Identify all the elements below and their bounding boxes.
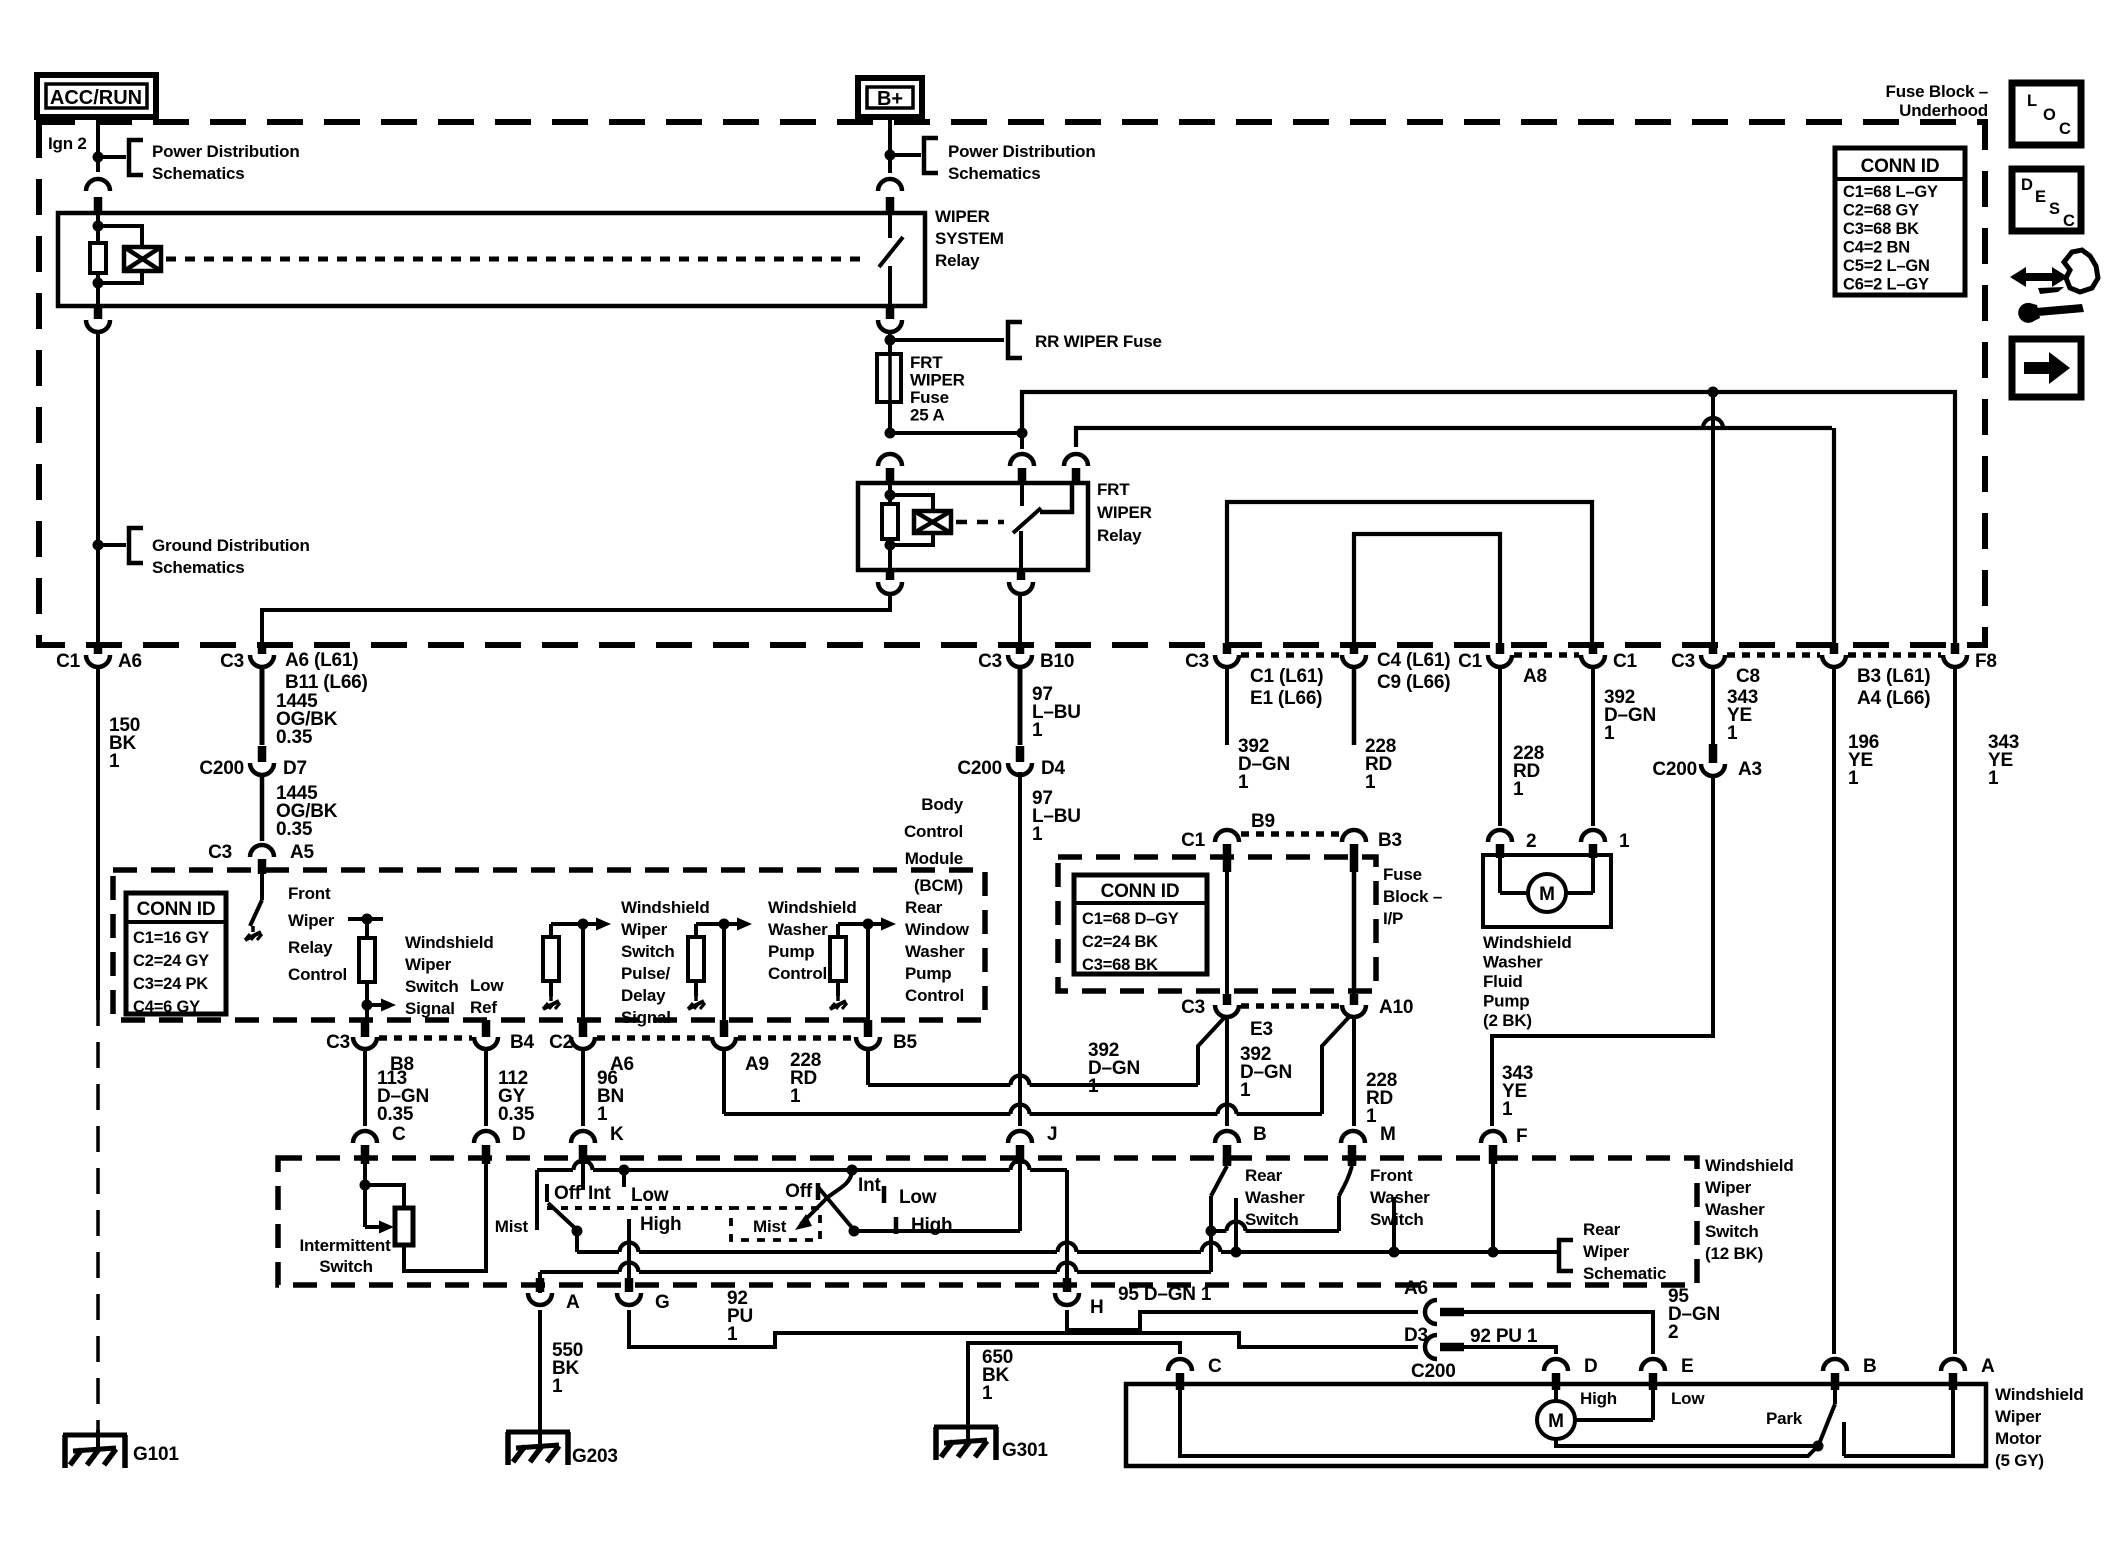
motor pin E connector [1641, 1359, 1665, 1371]
svg-text:High: High [1580, 1389, 1617, 1408]
svg-text:C200: C200 [1652, 759, 1697, 780]
wire fuse node to FRT wiper relay node [890, 431, 1022, 435]
intermittent switch potentiometer [363, 1162, 367, 1227]
svg-text:A: A [1981, 1356, 1995, 1377]
svg-text:Schematics: Schematics [152, 164, 245, 183]
svg-text:Washer: Washer [1245, 1188, 1305, 1207]
svg-text:FRT: FRT [910, 353, 943, 372]
wire pin H down from feed line [1065, 1170, 1069, 1292]
svg-text:B9: B9 [1251, 811, 1275, 832]
coil element (x-box) of FRT wiper relay [914, 511, 951, 533]
svg-text:L: L [2027, 92, 2037, 110]
svg-text:M: M [1539, 884, 1555, 905]
svg-text:1: 1 [1088, 1076, 1099, 1097]
wire from A9 to fuse block I/P A10 (228 RD 1) [722, 1049, 726, 1114]
svg-text:Relay: Relay [288, 938, 333, 957]
icon DESC box [2012, 169, 2081, 231]
svg-text:Pump: Pump [1483, 992, 1529, 1011]
svg-text:C4=6 GY: C4=6 GY [133, 998, 200, 1016]
svg-text:Wiper: Wiper [405, 955, 452, 974]
svg-text:Wiper: Wiper [1705, 1178, 1752, 1197]
svg-text:Washer: Washer [1705, 1200, 1765, 1219]
svg-text:Off: Off [554, 1183, 582, 1204]
svg-text:Control: Control [768, 964, 827, 983]
svg-text:Rear: Rear [905, 898, 943, 917]
CONN ID table for Fuse Block I/P [1074, 875, 1207, 974]
svg-text:0.35: 0.35 [276, 819, 313, 840]
svg-text:Motor: Motor [1995, 1429, 2042, 1448]
svg-text:Rear: Rear [1583, 1220, 1621, 1239]
wire 96 BN 1 from A6 to switch pin K [581, 1049, 585, 1126]
svg-text:1: 1 [1238, 772, 1249, 793]
svg-text:C3: C3 [220, 651, 244, 672]
svg-text:C3=68 BK: C3=68 BK [1843, 220, 1919, 238]
power source ACC/RUN [37, 75, 156, 117]
wire 550 BK 1 from A to G203 [538, 1310, 542, 1447]
connector C3 pin A6(L61)/B11(L66) [258, 643, 267, 654]
svg-text:1: 1 [1365, 772, 1376, 793]
wire relay output right (B+) down to fuse [886, 306, 895, 319]
relay actuation dotted line [166, 257, 866, 262]
svg-text:Low: Low [470, 976, 504, 995]
svg-text:Wiper: Wiper [1583, 1242, 1630, 1261]
reference bracket Rear Wiper Schematic [1554, 1250, 1558, 1254]
connector pin B3 into fuse block I/P [1352, 669, 1357, 745]
wire 95 D-GN 2 to motor pin E [1462, 1312, 1653, 1354]
svg-text:Intermittent: Intermittent [299, 1236, 391, 1255]
svg-text:1: 1 [790, 1086, 801, 1107]
svg-text:B3 (L61): B3 (L61) [1857, 666, 1930, 687]
module U - Body Control Module dashed box [113, 870, 985, 1020]
svg-text:G: G [655, 1292, 670, 1313]
svg-text:Front: Front [288, 884, 331, 903]
svg-text:Power Distribution: Power Distribution [948, 142, 1096, 161]
resistor in FRT wiper relay [882, 504, 898, 539]
svg-text:K: K [610, 1124, 624, 1145]
ground G203 [506, 1430, 570, 1435]
svg-text:Park: Park [1766, 1409, 1803, 1428]
svg-text:Signal: Signal [621, 1008, 671, 1027]
svg-text:1: 1 [982, 1383, 993, 1404]
BCM input Windshield Wiper Switch Signal with resistor [348, 917, 383, 921]
BCM output Rear Window Washer Pump Control with resistor and ground [838, 922, 882, 926]
svg-text:E: E [2035, 188, 2046, 206]
BCM output Windshield Washer Pump Control with resistor and ground [696, 922, 738, 926]
switch pin G connector [625, 1278, 634, 1292]
svg-text:O: O [2043, 106, 2056, 124]
svg-text:Washer: Washer [905, 942, 965, 961]
svg-text:Low: Low [631, 1185, 669, 1206]
svg-text:1: 1 [1619, 831, 1630, 852]
wire branch down to C3/C8 connector [1711, 392, 1715, 645]
svg-text:A8: A8 [1523, 666, 1547, 687]
mechanical link dotted line [547, 1206, 731, 1210]
svg-text:CONN ID: CONN ID [1101, 881, 1180, 902]
connector C3 pin C1(L61)/E1(L66) [1223, 643, 1232, 654]
svg-text:Block –: Block – [1383, 887, 1442, 906]
wire 392 D-GN 1 from C1 to pump pin 1 [1591, 669, 1595, 826]
connector C1 (washer pump low side) [1589, 643, 1598, 654]
connector pin F8 [1951, 643, 1960, 654]
svg-text:Ground Distribution: Ground Distribution [152, 536, 310, 555]
svg-text:Control: Control [288, 965, 347, 984]
svg-text:0.35: 0.35 [276, 727, 313, 748]
svg-text:1: 1 [1240, 1080, 1251, 1101]
wire from B5 to fuse block I/P E3 (392 D-GN 1) [866, 1049, 870, 1085]
svg-text:Switch: Switch [1245, 1210, 1299, 1229]
svg-text:C8: C8 [1736, 666, 1760, 687]
svg-text:0.35: 0.35 [498, 1104, 535, 1125]
wiper motor armature and speed inputs [1554, 1390, 1558, 1401]
svg-text:C3: C3 [208, 842, 232, 863]
svg-text:Fluid: Fluid [1483, 972, 1523, 991]
mist contact (left) [535, 1170, 539, 1230]
svg-text:A6: A6 [118, 651, 142, 672]
wire 1445 OG/BK 0.35 lower segment [260, 775, 265, 841]
svg-text:A9: A9 [745, 1054, 769, 1075]
svg-text:1: 1 [1502, 1099, 1513, 1120]
coil element (x-box) of wiper system relay [124, 247, 161, 271]
svg-text:A10: A10 [1379, 997, 1413, 1018]
svg-text:Mist: Mist [753, 1217, 787, 1236]
svg-text:1: 1 [1988, 768, 1999, 789]
svg-text:(5 GY): (5 GY) [1995, 1451, 2044, 1470]
svg-text:M: M [1548, 1411, 1564, 1432]
svg-text:Underhood: Underhood [1899, 101, 1988, 120]
switch pin D connector [474, 1131, 498, 1143]
reference bracket Power Distribution Schematics (left) [98, 155, 126, 159]
power source B+ [858, 78, 922, 117]
svg-text:Washer: Washer [1370, 1188, 1430, 1207]
fuse block internal jumper C3 to C1 [1227, 502, 1592, 645]
svg-text:E3: E3 [1250, 1019, 1273, 1040]
ground G101 [96, 1430, 100, 1452]
svg-text:1: 1 [1848, 768, 1859, 789]
connector symbol on B+ wire [878, 179, 902, 191]
reference bracket RR WIPER Fuse [890, 338, 1004, 342]
reference bracket Power Distribution Schematics (right) [890, 153, 921, 157]
switch pin K connector [571, 1131, 595, 1143]
svg-text:Windshield: Windshield [768, 898, 857, 917]
wiper switch blade (left) [548, 1203, 577, 1230]
svg-text:C3: C3 [1671, 651, 1695, 672]
mist detent dashed box [731, 1208, 820, 1240]
svg-text:C3: C3 [326, 1032, 350, 1053]
wire motor pin C internal rail [1180, 1390, 1816, 1456]
wire 228 RD 1 from C1 A8 to pump pin 2 [1498, 669, 1502, 826]
svg-text:Windshield: Windshield [405, 933, 494, 952]
svg-text:E: E [1681, 1356, 1693, 1377]
wire relay output left (Ign2 side) down [94, 306, 103, 319]
svg-text:Switch: Switch [319, 1257, 373, 1276]
wire FRT relay switched out to C3 B10 [1017, 570, 1026, 580]
svg-text:92 PU 1: 92 PU 1 [1470, 1326, 1538, 1347]
svg-text:D: D [512, 1124, 526, 1145]
connector pin A10 [1350, 994, 1359, 1005]
svg-text:C2: C2 [549, 1032, 573, 1053]
CONN ID table for BCM [126, 893, 226, 1014]
svg-text:RR WIPER Fuse: RR WIPER Fuse [1035, 332, 1162, 351]
wire B+ to wiper system relay [888, 117, 892, 173]
motor M - Windshield Washer Fluid Pump [1483, 855, 1611, 927]
svg-text:WIPER: WIPER [1097, 503, 1152, 522]
connector arcs into FRT WIPER relay [1020, 433, 1024, 449]
reference bracket Ground Distribution Schematics [98, 543, 126, 547]
high contact (left) to pin G [627, 1219, 631, 1292]
motor pin A connector [1941, 1359, 1965, 1371]
switch pin H connector [1063, 1278, 1072, 1292]
svg-text:25 A: 25 A [910, 406, 944, 425]
connector C3 pin E3 [1223, 994, 1232, 1005]
svg-text:C4 (L61): C4 (L61) [1377, 650, 1450, 671]
motor pin D connector [1544, 1359, 1568, 1371]
svg-text:Wiper: Wiper [288, 911, 335, 930]
wire 1445 OG/BK 0.35 upper segment [260, 669, 265, 745]
svg-text:95 D–GN 1: 95 D–GN 1 [1118, 1284, 1212, 1305]
BCM driver Front Wiper Relay Control with ground [260, 872, 264, 900]
wire dashed continuation to G101 [96, 1000, 100, 1433]
connector C3 pin B10 [1016, 643, 1025, 654]
svg-text:Relay: Relay [1097, 526, 1142, 545]
svg-text:1: 1 [109, 751, 120, 772]
low contact tick (left) [622, 1170, 626, 1187]
motor M - Windshield Wiper Motor box [1126, 1384, 1986, 1466]
svg-text:Relay: Relay [935, 251, 980, 270]
wire FRT relay coil out to C3 A6(L61) [886, 570, 895, 580]
svg-text:Fuse: Fuse [1383, 865, 1422, 884]
svg-text:F: F [1516, 1126, 1527, 1147]
wiper system relay switch contact [888, 213, 892, 238]
svg-text:Washer: Washer [768, 920, 828, 939]
dotted connector group links [1241, 652, 1340, 658]
svg-text:Rear: Rear [1245, 1166, 1283, 1185]
wire 97 L-BU 1 to switch pin J [1018, 772, 1022, 1126]
switch pin A connector [536, 1278, 545, 1292]
BCM input Windshield Wiper Switch Pulse/Delay Signal with resistor and ground [551, 922, 597, 926]
park contact and pin A rail [1842, 1422, 1846, 1456]
svg-text:Off: Off [785, 1181, 813, 1202]
svg-text:A: A [566, 1292, 580, 1313]
wire 97 L-BU 1 upper segment [1018, 669, 1023, 745]
connector C200 pin D7 [258, 746, 267, 762]
svg-text:Int: Int [588, 1183, 611, 1204]
wiper system relay coil circuit [96, 213, 100, 243]
ground rail R2 (to pin A) inside switch [540, 1270, 619, 1274]
fuse block internal jumper C4/C9 to C1/A8 [1354, 534, 1500, 645]
svg-text:C2=24 GY: C2=24 GY [133, 952, 209, 970]
svg-text:G101: G101 [133, 1444, 179, 1465]
switch pin M connector [1341, 1131, 1365, 1143]
svg-text:1: 1 [727, 1324, 738, 1345]
wire 150 BK 1 from C1 A6 [96, 669, 100, 1000]
svg-text:C: C [1208, 1356, 1222, 1377]
svg-text:D4: D4 [1041, 758, 1066, 779]
icon LOC box [2012, 83, 2081, 145]
svg-text:A4 (L66): A4 (L66) [1857, 688, 1930, 709]
svg-text:J: J [1047, 1124, 1057, 1145]
svg-text:S: S [2049, 200, 2060, 218]
svg-text:B: B [1253, 1124, 1267, 1145]
wire 343 YE 1 from C3 C8 [1711, 669, 1715, 744]
connector C1 pin A8 [1496, 643, 1505, 654]
wire 92 PU 1 from G to C200 D3 [629, 1310, 1418, 1347]
svg-text:1: 1 [1032, 824, 1043, 845]
svg-text:Control: Control [904, 822, 963, 841]
wire blade2 to pin J [854, 1229, 1020, 1233]
svg-text:Switch: Switch [621, 942, 675, 961]
svg-text:C3: C3 [1181, 997, 1205, 1018]
wire A10 to switch pin M (228 RD 1) [1352, 1018, 1356, 1126]
svg-text:Pulse/: Pulse/ [621, 964, 670, 983]
svg-text:G203: G203 [572, 1446, 618, 1467]
svg-text:C2=68 GY: C2=68 GY [1843, 202, 1919, 220]
svg-text:D: D [2021, 176, 2033, 194]
svg-text:Mist: Mist [495, 1217, 529, 1236]
svg-text:2: 2 [1526, 831, 1536, 852]
svg-text:1: 1 [597, 1104, 608, 1125]
wire node up and right to F8 feed [1022, 392, 1955, 645]
svg-text:A6 (L61): A6 (L61) [285, 650, 358, 671]
svg-text:Low: Low [1671, 1389, 1705, 1408]
svg-text:Power Distribution: Power Distribution [152, 142, 300, 161]
svg-text:E1 (L66): E1 (L66) [1250, 688, 1322, 709]
svg-text:Fuse Block –: Fuse Block – [1886, 82, 1988, 101]
svg-text:Schematic: Schematic [1583, 1264, 1666, 1283]
fuse FRT WIPER Fuse 25 A [877, 354, 901, 402]
svg-text:ACC/RUN: ACC/RUN [50, 87, 142, 109]
svg-text:C1=68 D–GY: C1=68 D–GY [1082, 910, 1179, 928]
CONN ID table for Fuse Block Underhood [1835, 148, 1965, 295]
svg-text:C1=68 L–GY: C1=68 L–GY [1843, 183, 1938, 201]
svg-text:C: C [392, 1124, 406, 1145]
svg-text:Module: Module [905, 849, 963, 868]
svg-text:C6=2 L–GY: C6=2 L–GY [1843, 276, 1929, 294]
icon arrows and wrench [2010, 267, 2068, 287]
wiper switch 2 blade and contacts [801, 1172, 852, 1224]
svg-text:H: H [1090, 1297, 1104, 1318]
svg-text:Signal: Signal [405, 999, 455, 1018]
connector C200 pin D4 [1016, 746, 1025, 762]
connector pin C4(L61)/C9(L66) [1350, 643, 1359, 654]
dotted link B9-B3 [1241, 831, 1340, 837]
wire 95 D-GN 1 from H to C200 A6 [1067, 1310, 1418, 1330]
svg-text:Pump: Pump [905, 964, 951, 983]
switch pin J connector [1008, 1131, 1032, 1143]
motor pin B connector [1823, 1359, 1847, 1371]
connector symbol on Ign 2 wire [86, 179, 110, 191]
svg-text:C1: C1 [1181, 830, 1206, 851]
svg-text:A3: A3 [1738, 759, 1762, 780]
svg-text:FRT: FRT [1097, 480, 1130, 499]
switch pin F connector [1481, 1131, 1505, 1143]
svg-text:Fuse: Fuse [910, 388, 949, 407]
svg-text:1: 1 [1032, 720, 1043, 741]
svg-text:C5=2 L–GN: C5=2 L–GN [1843, 257, 1930, 275]
svg-text:Windshield: Windshield [621, 898, 710, 917]
svg-text:(2 BK): (2 BK) [1483, 1011, 1532, 1030]
front washer switch [1348, 1158, 1357, 1166]
wire 113 D-GN 0.35 from B8 to switch pin C [363, 1049, 367, 1126]
feed rail R1 (343 YE) inside switch [577, 1250, 619, 1254]
svg-text:Switch: Switch [1370, 1210, 1424, 1229]
svg-text:0.35: 0.35 [377, 1104, 414, 1125]
FRT wiper relay coil circuit [888, 483, 892, 504]
svg-text:C200: C200 [199, 758, 244, 779]
svg-text:CONN ID: CONN ID [137, 899, 216, 920]
connector C3 pin A5 into BCM [250, 845, 274, 857]
svg-text:Ref: Ref [470, 998, 497, 1017]
dotted link E3-A10 [1241, 1003, 1340, 1009]
svg-text:1: 1 [552, 1376, 563, 1397]
svg-text:B4: B4 [510, 1032, 535, 1053]
BCM pin A9 [722, 924, 726, 1020]
connector C3 pin C8 [1709, 643, 1718, 654]
svg-text:WIPER: WIPER [910, 371, 965, 390]
connector C1 pin A6 (fuse block to 150 BK) [94, 643, 103, 654]
svg-text:1: 1 [1513, 779, 1524, 800]
ground G301 [934, 1425, 998, 1430]
svg-text:Front: Front [1370, 1166, 1413, 1185]
svg-text:G301: G301 [1002, 1440, 1048, 1461]
svg-text:B: B [1863, 1356, 1877, 1377]
svg-text:Int: Int [858, 1175, 881, 1196]
wire ACC/RUN to relay coil [96, 117, 100, 172]
svg-text:Pump: Pump [768, 942, 814, 961]
svg-text:B+: B+ [877, 88, 903, 110]
svg-text:Windshield: Windshield [1705, 1156, 1794, 1175]
dotted links between BCM pins [379, 1035, 472, 1041]
svg-text:1: 1 [1604, 723, 1615, 744]
relay K - WIPER SYSTEM Relay box [58, 213, 925, 306]
svg-text:C1: C1 [1458, 651, 1483, 672]
svg-text:C1=16 GY: C1=16 GY [133, 929, 209, 947]
wire pin F to feed rail [1491, 1162, 1495, 1252]
switch pin C connector [353, 1131, 377, 1143]
BCM pin B5 [866, 924, 870, 1020]
svg-text:Ign 2: Ign 2 [48, 134, 87, 153]
svg-text:(BCM): (BCM) [914, 876, 963, 895]
svg-text:Window: Window [905, 920, 970, 939]
svg-text:Schematics: Schematics [948, 164, 1041, 183]
svg-text:C4=2 BN: C4=2 BN [1843, 239, 1910, 257]
connector pin B3(L61)/A4(L66) [1830, 643, 1839, 654]
wire right branch down to B3/A4 connector [1832, 428, 1836, 645]
svg-text:Switch: Switch [405, 977, 459, 996]
svg-text:D7: D7 [283, 758, 307, 779]
switch S - Windshield Wiper Washer Switch dashed box [278, 1158, 1697, 1285]
wire 343 YE 1 from A3 to switch pin F [1492, 775, 1713, 1126]
wire E3 to switch pin B (392 D-GN 1) [1225, 1018, 1229, 1126]
svg-text:B3: B3 [1378, 830, 1402, 851]
wires through fuse block I/P [1225, 870, 1229, 1003]
svg-text:WIPER: WIPER [935, 207, 990, 226]
off contact tick (left) [545, 1184, 549, 1202]
svg-text:F8: F8 [1975, 651, 1997, 672]
svg-text:Control: Control [905, 986, 964, 1005]
svg-text:2: 2 [1668, 1322, 1678, 1343]
svg-text:M: M [1380, 1124, 1396, 1145]
wire FRT wiper relay switch common feed [1076, 428, 1832, 447]
svg-text:1: 1 [1727, 723, 1738, 744]
svg-text:I/P: I/P [1383, 909, 1403, 928]
svg-text:1: 1 [1366, 1106, 1377, 1127]
svg-text:C1: C1 [1613, 651, 1638, 672]
wire motor common to park node [1556, 1439, 1816, 1446]
svg-text:C200: C200 [957, 758, 1002, 779]
svg-text:Windshield: Windshield [1995, 1385, 2084, 1404]
rear washer switch [1223, 1158, 1232, 1166]
svg-text:C: C [2063, 212, 2075, 230]
